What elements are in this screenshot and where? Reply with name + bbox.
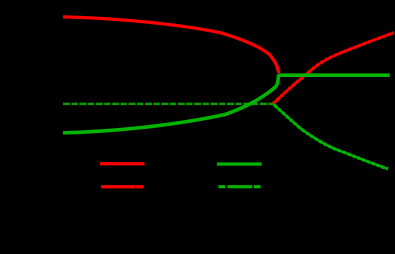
red dashed rising branch (ragged overlay) <box>273 33 394 104</box>
legend green dashed sample <box>218 185 225 188</box>
zero line red dashed (under green, slightly longer dashes) <box>63 103 274 105</box>
green dashed falling branch (ragged overlay) <box>274 104 389 169</box>
red dashed rising branch (core) <box>273 33 394 104</box>
green solid lower branch + flat tail <box>63 75 390 133</box>
green dashed falling branch (core) <box>274 104 389 169</box>
red solid upper branch <box>63 17 389 75</box>
legend red solid sample <box>100 162 144 165</box>
zero line green dashed <box>63 103 274 106</box>
legend red dashed sample <box>101 185 135 188</box>
legend green solid sample <box>217 162 262 165</box>
